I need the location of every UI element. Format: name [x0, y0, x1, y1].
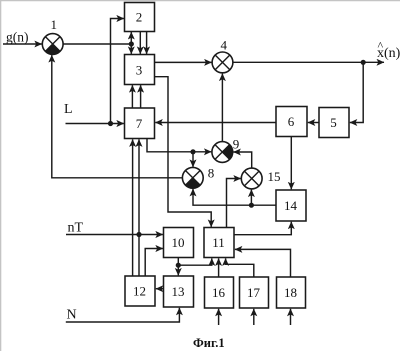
svg-text:Фиг.1: Фиг.1	[193, 336, 225, 350]
wire junction up into mult15 bottom	[250, 190, 252, 206]
svg-text:2: 2	[136, 10, 143, 25]
wire input stub block16	[218, 309, 220, 325]
wire g(n) input	[3, 43, 42, 45]
wire input stub block18	[290, 309, 292, 325]
svg-text:6: 6	[288, 114, 295, 129]
wire block16 to block11 bottom	[218, 258, 220, 277]
wire N input to block13 bottom	[66, 308, 180, 322]
wire block5 to block6	[308, 122, 319, 124]
wire block11 top output to mult15 left	[227, 179, 241, 228]
wire block6 to block7	[155, 122, 276, 124]
svg-text:nT: nT	[68, 221, 84, 236]
wire block12 to block10	[145, 249, 163, 277]
multiplier U9 (circle with X, right sector filled)	[212, 142, 233, 163]
svg-text:9: 9	[233, 137, 240, 152]
wire block2 to block3 a	[139, 32, 141, 54]
wire block12 to block7 a	[132, 139, 134, 276]
wire mult8 output feedback to summer1	[52, 55, 183, 178]
wire block7 to block3 a	[131, 85, 133, 108]
wire block13 to block12	[156, 288, 164, 290]
wire output xhat	[233, 61, 384, 63]
node junction nT	[136, 232, 141, 237]
wire U1 output to branch node	[63, 43, 131, 45]
node junction 14 output	[249, 203, 254, 208]
svg-text:5: 5	[330, 115, 337, 130]
block 11	[204, 228, 234, 258]
block 14	[276, 190, 306, 221]
node junction 10 output	[176, 263, 181, 268]
block 7	[125, 108, 155, 139]
multiplier U8 (circle with X, bottom sector filled)	[182, 167, 203, 188]
wire block2 to block3 b	[146, 32, 148, 54]
wire block7 to block3 b	[140, 85, 142, 108]
node output junction	[361, 60, 366, 65]
svg-text:7: 7	[136, 116, 143, 131]
block 6	[276, 107, 307, 137]
summer U1 (circle with X, bottom sector filled)	[42, 34, 63, 55]
wire block12 to block7 b	[138, 139, 140, 276]
wire block3 second output to block11 top	[155, 77, 212, 227]
svg-text:N: N	[67, 308, 77, 323]
wire block6 to block14	[290, 137, 292, 190]
svg-text:14: 14	[284, 198, 298, 213]
node junction g branch	[129, 41, 134, 46]
svg-text:13: 13	[172, 284, 185, 299]
wire junction to block11 bottom left	[178, 258, 212, 265]
wire block11 to block14 bottom	[234, 222, 291, 235]
block 17	[240, 277, 269, 308]
wire block3 to multiplier4	[155, 61, 212, 63]
svg-text:10: 10	[172, 235, 185, 250]
multiplier U4 (circle with X)	[212, 52, 233, 73]
svg-text:4: 4	[221, 38, 228, 53]
wire input stub block17	[253, 309, 255, 325]
wire branch up into block 2	[130, 32, 132, 44]
block 5	[319, 108, 349, 138]
wire L input	[66, 123, 124, 125]
wire branch down into block 3	[130, 44, 132, 54]
svg-text:16: 16	[212, 285, 226, 300]
wire junction down into mult8 top	[192, 152, 194, 167]
block 3	[125, 55, 155, 85]
block 12	[125, 276, 155, 306]
wire block14 output to mult8 bottom	[193, 189, 276, 205]
wire block10 output down to block13	[177, 258, 179, 276]
wire junction down to block5	[350, 62, 363, 122]
wire block18 to block11 right	[235, 249, 291, 277]
svg-text:11: 11	[212, 235, 225, 250]
svg-text:8: 8	[208, 166, 215, 181]
svg-text:17: 17	[247, 285, 261, 300]
svg-text:3: 3	[136, 63, 143, 78]
wire nT input to block10	[66, 234, 163, 236]
block 2	[125, 3, 155, 32]
svg-text:15: 15	[268, 169, 281, 184]
svg-text:^: ^	[378, 39, 384, 53]
block 10	[164, 228, 194, 258]
wire mult15 output to mult9 right	[233, 152, 251, 168]
svg-text:L: L	[64, 102, 73, 117]
svg-text:12: 12	[133, 284, 146, 299]
wire multiplier9 up to multiplier4	[221, 74, 223, 142]
block 13	[164, 276, 194, 307]
block 16	[205, 277, 234, 308]
wire block7 to multiplier9	[147, 139, 211, 152]
wire block17 to block11 bottom	[226, 258, 254, 277]
node junction L branch	[108, 121, 113, 126]
wire L to block2 left	[111, 19, 124, 124]
multiplier U15 (circle with X)	[241, 168, 262, 189]
svg-text:18: 18	[284, 285, 297, 300]
svg-text:1: 1	[51, 17, 58, 32]
svg-text:g(n): g(n)	[6, 30, 29, 45]
node junction to mult8	[190, 149, 195, 154]
block 18	[277, 277, 306, 308]
